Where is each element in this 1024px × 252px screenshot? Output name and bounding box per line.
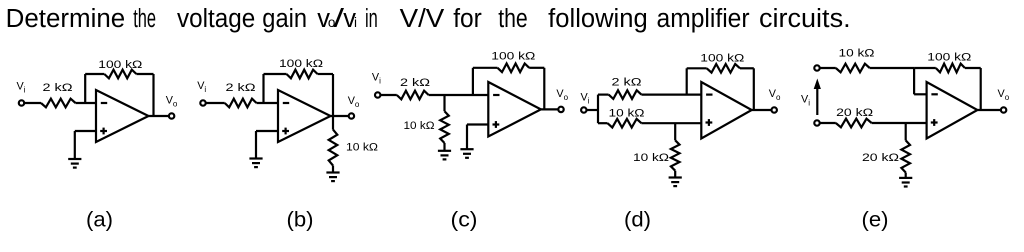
input terminal Vi (c) <box>375 92 380 97</box>
resistor 20 k-ohm pulldown (e) <box>901 140 910 172</box>
svg-text:Vi: Vi <box>372 71 381 85</box>
op-amp U1 (d) <box>701 82 751 139</box>
feedback top wire right (a) <box>136 73 153 75</box>
resistor 10 k-ohm load (b) <box>329 130 338 166</box>
wire noninverting node to pulldown (e) <box>905 123 907 140</box>
feedback node vertical wire (e) <box>913 68 915 94</box>
wire resistor to ground (b) <box>332 166 334 173</box>
feedback top wire left (c) <box>473 67 498 69</box>
feedback left vertical wire (b) <box>262 74 264 103</box>
output terminal Vo (e) <box>1001 107 1006 112</box>
feedback top wire left (b) <box>264 73 287 75</box>
wire R2 to noninverting input (e) <box>872 122 927 124</box>
feedback right vertical wire (e) <box>980 68 982 110</box>
wire to ground (b) <box>255 131 257 159</box>
svg-text:Vi: Vi <box>17 81 26 95</box>
feedback top wire right (b) <box>318 73 334 75</box>
svg-text:Vi: Vi <box>801 94 810 108</box>
wire Vi to R1 (b) <box>206 102 225 104</box>
ground load (b) <box>326 173 339 182</box>
wire R1 to feedback node (e) <box>870 67 914 69</box>
ground (e) <box>899 178 912 187</box>
wire to R2 (d) <box>598 122 608 124</box>
svg-text:Vi: Vi <box>197 80 206 94</box>
ground noninverting (b) <box>249 159 262 168</box>
svg-text:100 kΩ: 100 kΩ <box>491 51 536 63</box>
feedback left vertical wire (d) <box>686 68 688 94</box>
svg-text:following: following <box>548 5 648 33</box>
svg-text:Determine: Determine <box>6 5 126 33</box>
op-amp U1 (b) <box>278 90 331 142</box>
feedback top wire right (d) <box>740 67 754 69</box>
feedback right vertical wire (d) <box>753 68 755 110</box>
svg-text:(d): (d) <box>624 209 651 232</box>
svg-text:10 kΩ: 10 kΩ <box>346 142 379 154</box>
resistor 100 k-ohm feedback (c) <box>498 64 530 73</box>
svg-text:10 kΩ: 10 kΩ <box>633 152 670 164</box>
svg-text:(c): (c) <box>451 209 478 232</box>
svg-text:Vi: Vi <box>581 92 590 106</box>
wire R2 to noninverting input (d) <box>641 122 701 124</box>
feedback left vertical wire (a) <box>84 74 86 103</box>
resistor 100 k-ohm feedback (e) <box>936 64 965 73</box>
svg-text:100 kΩ: 100 kΩ <box>927 52 972 64</box>
bottom input terminal (e) <box>814 120 819 125</box>
wire Vi to split node (d) <box>587 109 598 111</box>
wire output to load resistor (b) <box>332 116 334 130</box>
feedback right vertical wire (a) <box>152 74 154 116</box>
wire noninverting input (a) <box>75 130 96 132</box>
ground (a) <box>68 159 81 168</box>
wire to ground (a) <box>74 131 76 159</box>
output terminal Vo (b) <box>349 113 354 118</box>
ground (d) <box>669 178 682 187</box>
resistor 2 k-ohm (c) <box>397 91 429 100</box>
wire R1 to inverting input (d) <box>641 93 701 95</box>
output wire (b) <box>331 115 349 117</box>
wire to inverting input (b) <box>257 102 279 104</box>
wire top terminal to R1 (e) <box>820 67 836 69</box>
feedback top wire left (d) <box>687 67 707 69</box>
source arrow Vi (e) <box>816 88 818 116</box>
feedback top wire left (e) <box>914 67 936 69</box>
wire bottom terminal to R2 (e) <box>820 122 836 124</box>
resistor 10 k-ohm pulldown (d) <box>671 140 680 170</box>
output wire (e) <box>977 109 1001 111</box>
feedback right vertical wire (b) <box>332 74 334 116</box>
svg-text:Vo: Vo <box>166 95 178 109</box>
resistor 2 k-ohm (b) <box>225 99 257 108</box>
svg-text:2 kΩ: 2 kΩ <box>400 77 431 89</box>
op-amp U1 (e) <box>927 82 978 139</box>
svg-text:voltage: voltage <box>177 5 255 33</box>
resistor 10 k-ohm shunt (c) <box>440 111 449 143</box>
wire node to shunt resistor (c) <box>443 95 445 111</box>
svg-text:2 kΩ: 2 kΩ <box>43 82 74 94</box>
output terminal Vo (a) <box>169 113 174 118</box>
feedback right vertical wire (c) <box>543 68 545 110</box>
ground noninverting (c) <box>460 149 473 158</box>
output wire (c) <box>541 108 559 110</box>
svg-text:2 kΩ: 2 kΩ <box>612 77 643 89</box>
feedback top wire right (e) <box>965 67 981 69</box>
svg-text:100 kΩ: 100 kΩ <box>279 58 324 70</box>
ground shunt (c) <box>438 151 451 160</box>
input terminal Vi (a) <box>19 100 24 105</box>
resistor 100 k-ohm feedback (a) <box>104 70 136 79</box>
svg-text:10 kΩ: 10 kΩ <box>839 48 876 60</box>
svg-text:i: i <box>354 15 357 30</box>
resistor 2 k-ohm top branch (d) <box>609 90 642 99</box>
svg-text:(b): (b) <box>287 209 314 232</box>
resistor 10 k-ohm bottom branch (d) <box>608 119 642 128</box>
svg-text:20 kΩ: 20 kΩ <box>862 152 900 164</box>
feedback top wire right (c) <box>529 67 544 69</box>
svg-text:Vo: Vo <box>556 88 568 102</box>
svg-text:Vo: Vo <box>998 88 1010 102</box>
wire noninverting input (b) <box>256 130 278 132</box>
wire to inverting input (c) <box>429 94 489 96</box>
feedback left vertical wire (c) <box>472 68 474 95</box>
output terminal Vo (d) <box>772 107 777 112</box>
svg-text:10 kΩ: 10 kΩ <box>404 120 435 132</box>
svg-text:2 kΩ: 2 kΩ <box>226 82 257 94</box>
input terminal Vi (d) <box>581 107 586 112</box>
wire shunt resistor to ground (c) <box>443 143 445 151</box>
resistor 20 k-ohm bottom (e) <box>836 119 872 128</box>
wire noninverting input (c) <box>467 123 488 125</box>
op-amp U1 (a) <box>96 90 149 142</box>
svg-text:Vo: Vo <box>348 95 360 109</box>
title text <box>6 5 851 33</box>
input terminal Vi (b) <box>200 100 205 105</box>
svg-text:(a): (a) <box>86 209 113 232</box>
wire pulldown to ground (d) <box>674 171 676 178</box>
wire to R1 (d) <box>598 93 609 95</box>
svg-text:gain: gain <box>262 5 307 33</box>
resistor 10 k-ohm top (e) <box>836 64 870 73</box>
top input terminal (e) <box>814 65 819 70</box>
resistor 2 k-ohm R1 (a) <box>41 99 76 108</box>
svg-text:for: for <box>453 5 482 33</box>
svg-text:Vo: Vo <box>769 88 781 102</box>
wire Vi to R1 (c) <box>381 94 397 96</box>
wire to ground (c) <box>466 125 468 150</box>
svg-text:circuits.: circuits. <box>759 5 851 33</box>
wire noninverting node to pulldown (d) <box>674 123 676 140</box>
svg-text:V/V: V/V <box>400 5 445 33</box>
svg-text:in: in <box>365 5 378 33</box>
wire to inverting input (e) <box>914 93 927 95</box>
output wire (a) <box>149 115 170 117</box>
resistor 100 k-ohm feedback (b) <box>287 70 318 79</box>
feedback top wire left (a) <box>85 73 104 75</box>
svg-text:amplifier: amplifier <box>657 5 751 33</box>
svg-text:100 kΩ: 100 kΩ <box>700 53 745 65</box>
output wire (d) <box>752 109 772 111</box>
svg-text:(e): (e) <box>862 209 889 232</box>
svg-text:the: the <box>133 5 156 33</box>
svg-text:100 kΩ: 100 kΩ <box>98 59 143 71</box>
wire Vi to R1 (a) <box>24 102 41 104</box>
svg-text:10 kΩ: 10 kΩ <box>609 108 646 120</box>
op-amp U1 (c) <box>488 82 541 137</box>
svg-text:20 kΩ: 20 kΩ <box>836 107 874 119</box>
input split vertical wire (d) <box>597 95 599 124</box>
wire R1 to inverting input (a) <box>76 102 97 104</box>
wire pulldown to ground (e) <box>905 173 907 178</box>
output terminal Vo (c) <box>558 107 563 112</box>
resistor 100 k-ohm feedback (d) <box>707 64 740 73</box>
svg-text:the: the <box>498 5 528 33</box>
